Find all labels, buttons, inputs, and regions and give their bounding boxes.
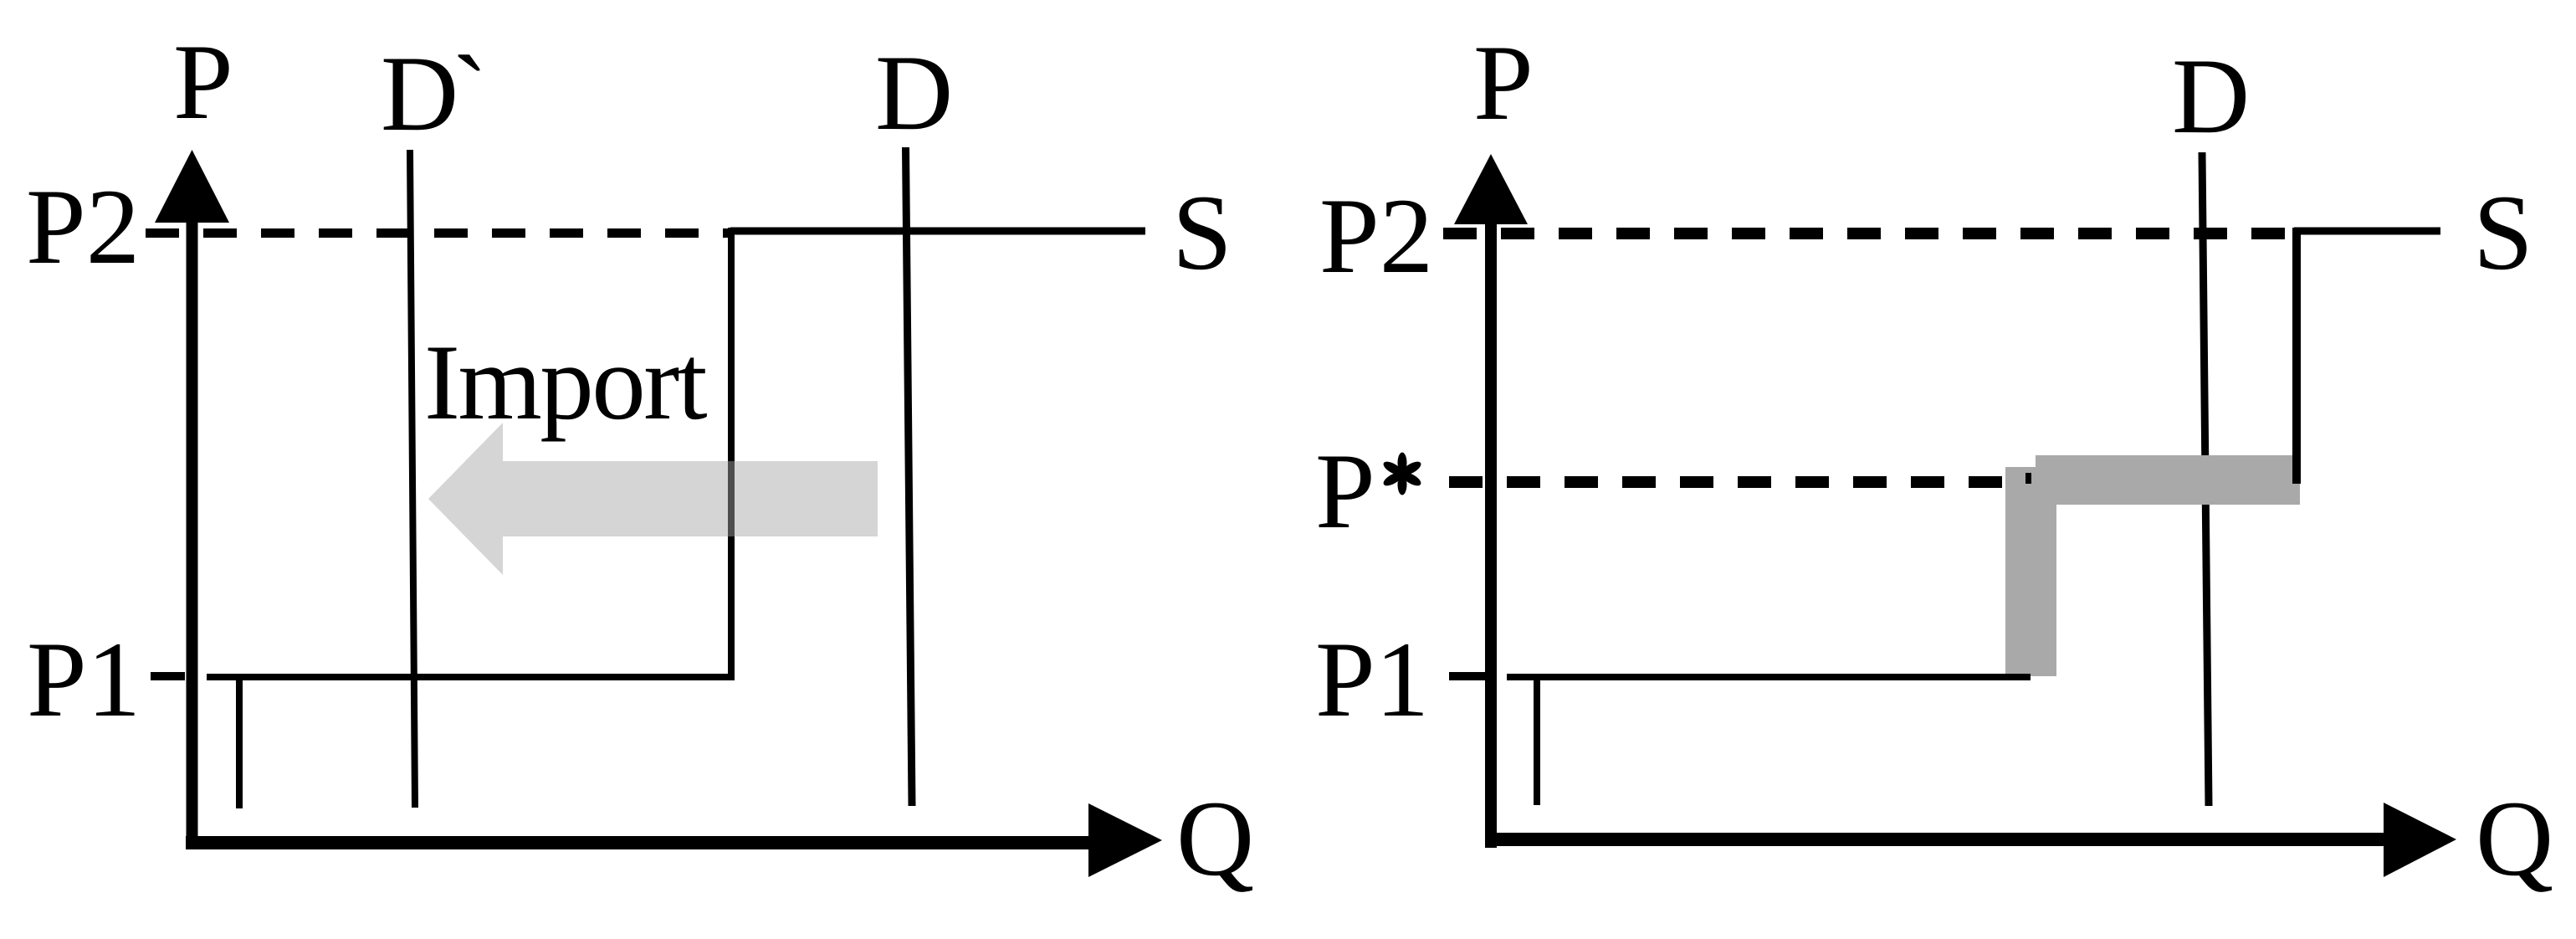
svg-text:Q: Q	[2476, 778, 2553, 898]
svg-text:D`: D`	[381, 33, 481, 153]
svg-text:Q: Q	[1176, 778, 1254, 898]
svg-text:P: P	[1315, 431, 1375, 551]
gray quota band horizontal	[2036, 455, 2300, 505]
svg-text:P2: P2	[1319, 176, 1433, 295]
P1 tick	[151, 672, 185, 680]
svg-text:P2: P2	[26, 167, 140, 286]
small hanging tick	[236, 680, 243, 808]
dashed price line P*	[1449, 476, 2006, 488]
svg-text:P1: P1	[27, 619, 141, 739]
dash remnant over gray	[2025, 473, 2031, 484]
supply segment at P1	[207, 674, 735, 680]
gray quota band vertical	[2005, 467, 2056, 676]
supply segment at P1	[1507, 674, 2031, 680]
small hanging tick	[1534, 680, 1540, 805]
supply curve S horizontal at P2	[2294, 228, 2440, 235]
P axis arrowhead	[1454, 154, 1528, 224]
svg-text:S: S	[2473, 172, 2533, 292]
P axis shaft	[187, 209, 198, 849]
demand curve D vertical line	[2202, 152, 2209, 806]
supply curve S horizontal segment at P2	[730, 228, 1145, 235]
svg-text:P: P	[173, 22, 233, 141]
dashed price line P2	[146, 228, 729, 238]
supply step vertical	[2292, 228, 2301, 484]
demand curve D vertical line	[906, 147, 913, 806]
Q axis shaft	[1485, 833, 2384, 846]
svg-text:D: D	[2172, 36, 2250, 156]
svg-text:P1: P1	[1315, 619, 1429, 739]
svg-text:Import: Import	[424, 322, 708, 442]
P axis shaft	[1485, 209, 1497, 848]
dashed price line P2	[1443, 228, 2292, 239]
Q axis arrowhead	[2384, 803, 2456, 877]
supply step vertical segment	[728, 228, 735, 680]
P axis arrowhead	[155, 150, 229, 223]
P1 tick	[1449, 672, 1485, 680]
svg-text:S: S	[1172, 172, 1232, 292]
Q axis arrowhead	[1088, 803, 1162, 877]
svg-text:D: D	[875, 33, 953, 152]
svg-text:P: P	[1473, 23, 1534, 142]
demand curve D` (shifted) vertical line	[410, 150, 415, 808]
P* asterisk (flower)	[1381, 453, 1423, 495]
import arrow (gray, semi-transparent)	[428, 423, 878, 575]
Q axis shaft	[186, 836, 1088, 849]
